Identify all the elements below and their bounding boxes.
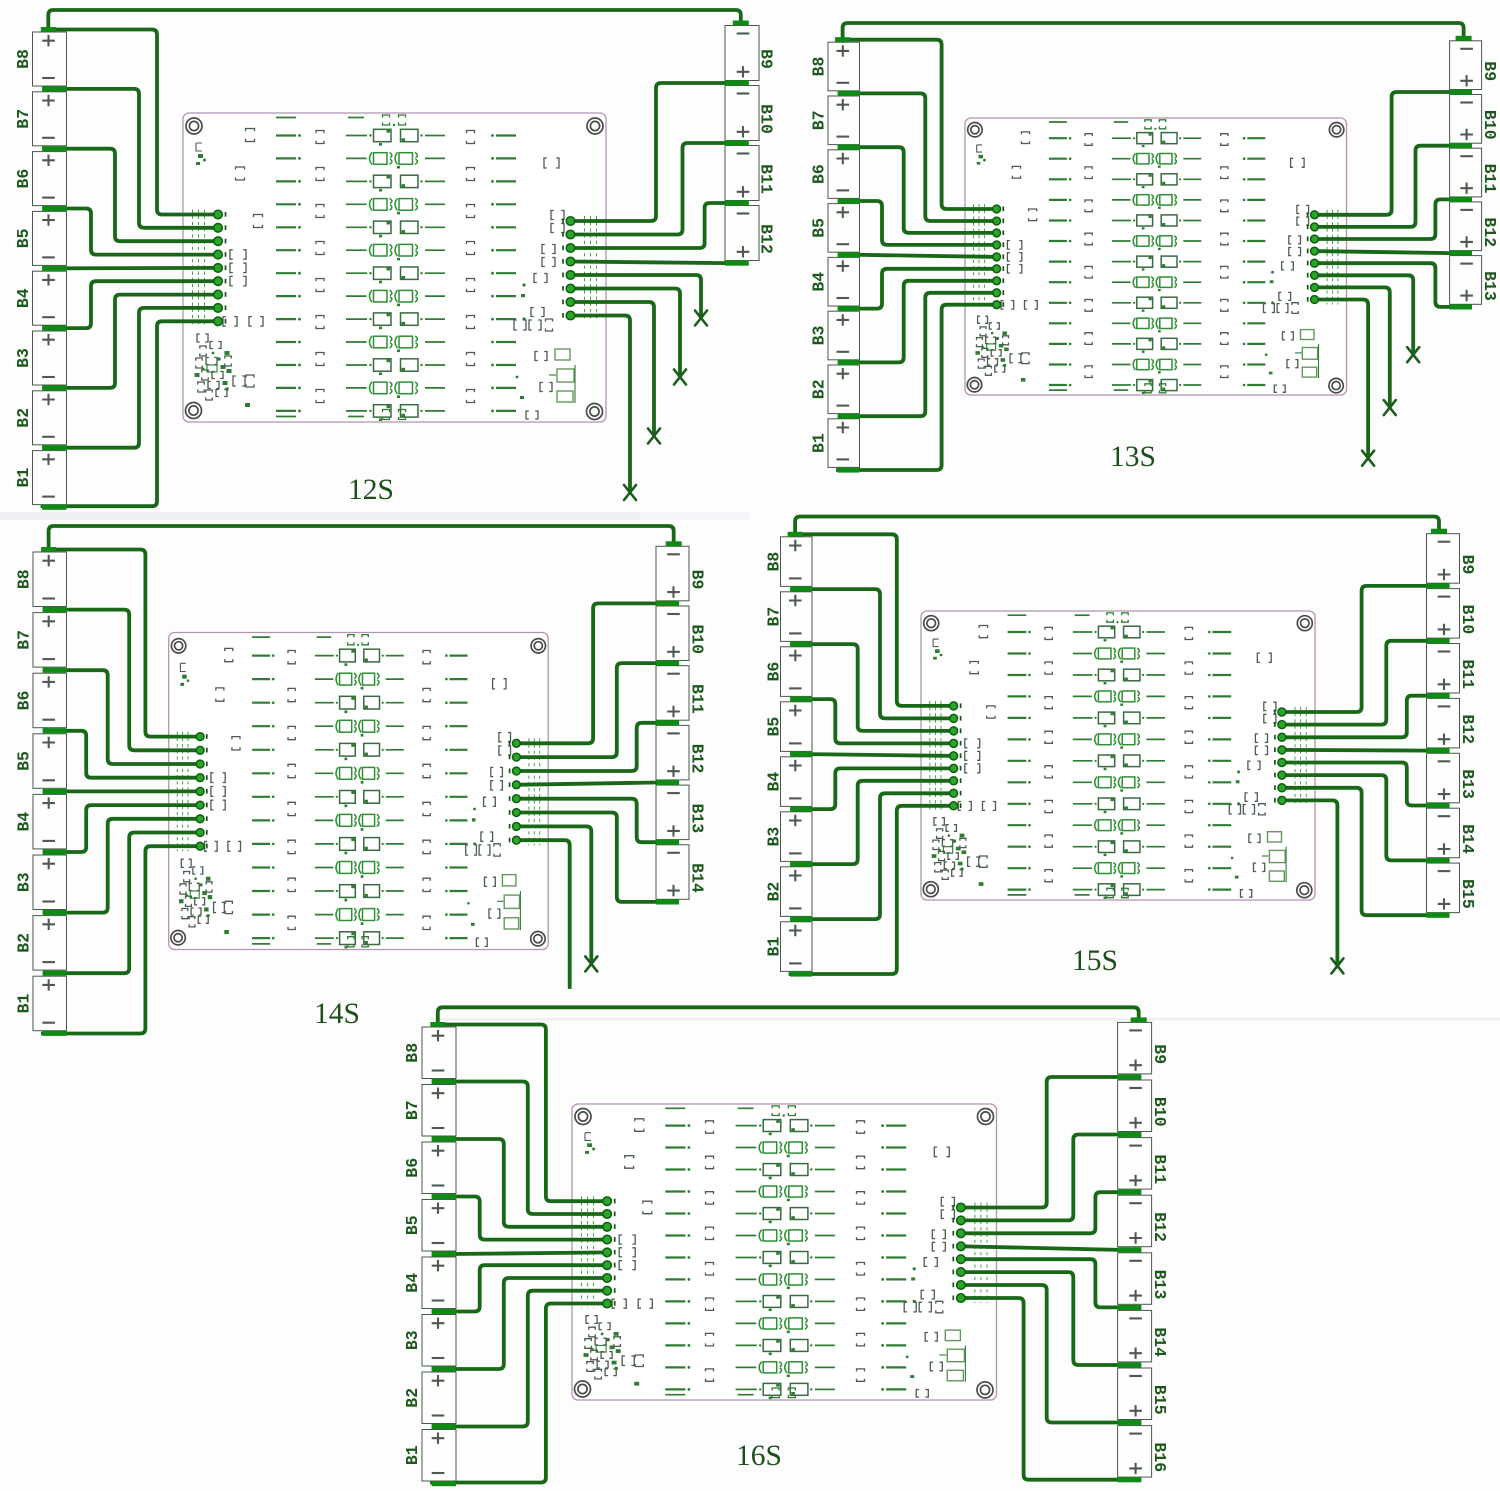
battery B9 (13S) [1450,41,1500,90]
X mark unused lead (12S) [695,311,707,326]
svg-text:B1: B1 [14,468,33,488]
link bar B6/B7 junction (14S) [43,668,67,673]
battery B6 (12S) [14,152,67,206]
battery B3 (14S) [15,855,67,910]
wire junction B11/B12 to pad R3 (16S) [961,1192,1118,1233]
wire junction B5/B6 to pad L4 (13S) [858,201,997,245]
wire unused pad R7 lead (13S) [1315,287,1390,407]
svg-text:B8: B8 [765,552,784,572]
wire junction B11/B12 to pad R3 (12S) [571,203,726,248]
svg-text:B16: B16 [1150,1442,1169,1472]
wire junction B7/B8 to pad L2 (15S) [810,589,954,718]
link bar B12/B13 junction (14S) [656,780,679,785]
link bar B9/B10 junction (15S) [1427,583,1450,588]
battery B12 (16S) [1118,1195,1170,1247]
link bar B7/B8 junction (16S) [432,1079,456,1084]
balance pads right column (14S) [510,739,521,844]
link bar B3/B4 junction (12S) [42,326,66,331]
wire junction B5/B6 to pad L4 (12S) [65,209,219,255]
battery B6 (14S) [15,673,67,728]
svg-text:B4: B4 [765,772,784,792]
battery B13 (13S) [1450,256,1500,305]
wire junction B1/B2 to pad L8 (13S) [858,293,997,416]
wire junction B5/B6 to pad L4 (15S) [810,699,954,743]
link bar B14+ terminal (14S) [656,899,679,904]
wire junction B7/B8 to pad L2 (14S) [65,610,201,751]
link bar B14/B15 junction (16S) [1118,1362,1142,1367]
balance pads left column (14S) [196,733,207,850]
link bar B6/B7 junction (16S) [432,1136,456,1141]
battery B1 (12S) [14,451,67,505]
wire junction B1/B2 to pad L8 (16S) [454,1291,607,1427]
link bar B15+ terminal (15S) [1427,913,1450,918]
battery B4 (14S) [15,794,67,849]
svg-text:B5: B5 [15,751,34,771]
balance pads left column (16S) [603,1197,615,1308]
battery B10 (16S) [1118,1080,1170,1132]
link bar B2/B3 junction (15S) [790,862,812,867]
svg-text:B10: B10 [1150,1097,1169,1127]
wire junction B1/B2 to pad L8 (12S) [65,308,219,448]
battery B5 (16S) [403,1200,456,1252]
wire B8+ to B9- series link (13S) [843,23,1464,40]
battery B6 (13S) [810,150,860,199]
PCB component footprints 15S [932,613,1286,899]
battery B14 (14S) [656,845,707,900]
svg-text:B6: B6 [403,1158,422,1178]
link bar B2/B3 junction (14S) [43,910,67,915]
link bar B16+ terminal (16S) [1118,1477,1142,1482]
pad guide dashed lines 13S [974,204,1338,310]
PCB board 14S [169,633,549,950]
link bar B6/B7 junction (15S) [790,642,812,647]
svg-text:12S: 12S [348,474,394,506]
wire junction B9/B10 to pad R1 (16S) [961,1077,1118,1208]
wire junction B10/B11 to pad R2 (13S) [1315,146,1450,227]
link bar B2/B3 junction (16S) [432,1366,456,1371]
wire junction B5/B6 to pad L4 (14S) [65,731,201,778]
svg-text:B10: B10 [757,104,776,134]
svg-text:B7: B7 [14,109,33,129]
wire unused pad R8 lead (13S) [1315,300,1369,459]
svg-text:15S: 15S [1072,945,1118,977]
battery B4 (12S) [14,271,67,325]
link bar B5/B6 junction (13S) [838,198,860,203]
link bar B5/B6 junction (16S) [432,1194,456,1199]
link bar B2/B3 junction (12S) [42,385,66,390]
wire junction B14/B15 to pad R6 (15S) [1282,775,1427,860]
battery B7 (15S) [765,592,813,642]
wire junction B5/B6 to pad L4 (16S) [454,1197,607,1240]
wire B1- to pad L9 (15S) [791,806,954,974]
link bar B2/B3 junction (13S) [838,360,860,365]
link bar B8+ terminal (15S) [788,532,803,537]
battery B11 (13S) [1450,148,1500,197]
battery B1 (13S) [810,419,860,468]
X mark unused lead (12S) [624,485,636,500]
link bar B1/B2 junction (13S) [838,414,860,419]
link bar B13/B14 junction (15S) [1427,803,1450,808]
wire junction B1/B2 to pad L8 (15S) [810,793,954,919]
battery B10 (15S) [1427,589,1478,639]
link bar B1- terminal (16S) [432,1481,456,1486]
wire unused pad R8 lead (12S) [571,316,631,493]
svg-text:B7: B7 [15,630,34,650]
battery B1 (14S) [15,976,67,1030]
svg-text:B13: B13 [1480,271,1499,301]
balance pads left column (12S) [214,210,226,325]
svg-text:B2: B2 [15,933,34,953]
svg-text:B8: B8 [403,1043,422,1063]
svg-text:B12: B12 [1458,714,1477,744]
battery B15 (16S) [1118,1368,1170,1420]
svg-text:B7: B7 [810,110,829,130]
wire B16+ pack positive to pad R8 (16S) [961,1298,1118,1480]
battery B4 (13S) [810,257,860,306]
link bar B10/B11 junction (16S) [1118,1132,1142,1137]
wire B1- to pad L9 (16S) [432,1304,607,1483]
battery B13 (14S) [656,785,707,840]
svg-text:B6: B6 [810,164,829,184]
battery B2 (12S) [14,391,67,445]
svg-text:B3: B3 [765,827,784,847]
link bar B3/B4 junction (16S) [432,1309,456,1314]
wire junction B2/B3 to pad L7 (13S) [858,281,997,363]
wire junction B3/B4 to pad L6 (15S) [810,768,954,809]
wire junction B9/B10 to pad R1 (14S) [516,603,656,743]
link bar B12+ terminal (12S) [725,261,749,266]
wire B13+ pack positive to pad R5 (13S) [1315,263,1450,307]
svg-text:B12: B12 [1150,1212,1169,1242]
svg-text:B8: B8 [15,569,34,589]
svg-text:B15: B15 [1458,879,1477,909]
wire unused pad R5 lead (12S) [571,275,702,318]
balance pads right column (13S) [1308,211,1319,303]
link bar B11/B12 junction (12S) [725,200,749,205]
wire unused pad R8 lead (14S) [516,840,569,987]
X mark unused lead (15S) [1331,958,1343,973]
balance pads right column (12S) [563,217,575,320]
svg-text:B11: B11 [688,684,707,714]
mounting holes 13S [967,123,1344,393]
svg-text:B12: B12 [757,224,776,254]
svg-text:B13: B13 [1458,769,1477,799]
mounting holes 16S [575,1109,994,1398]
svg-text:B9: B9 [1480,61,1499,81]
link bar B4/B5 junction (16S) [432,1251,456,1256]
battery B8 (13S) [810,42,860,91]
link bar B10/B11 junction (14S) [656,661,679,666]
battery B10 (14S) [656,606,707,661]
battery B14 (15S) [1427,808,1478,858]
link bar B7/B8 junction (13S) [838,91,860,96]
svg-text:B8: B8 [810,57,829,77]
wire unused pad R6 lead (12S) [571,289,681,378]
svg-text:B12: B12 [1480,217,1499,247]
pad guide dashed lines 14S [177,732,540,852]
PCB board 13S [965,118,1347,395]
battery B3 (15S) [765,812,813,862]
PCB component footprints 16S [584,1106,966,1399]
link bar B14/B15 junction (15S) [1427,858,1450,863]
battery B15 (15S) [1427,863,1478,913]
wire B8+ to pad L1 (14S) [49,550,201,737]
wire junction B7/B8 to pad L2 (12S) [65,89,219,228]
battery B4 (16S) [403,1257,456,1309]
wire junction B12/B13 to pad R4 (14S) [516,783,656,785]
mounting holes 12S [186,118,604,420]
link bar B12/B13 junction (15S) [1427,748,1450,753]
link bar B11/B12 junction (14S) [656,720,679,725]
svg-text:B9: B9 [757,49,776,69]
svg-text:B9: B9 [1150,1044,1169,1064]
wire unused pad R7 lead (12S) [571,302,655,436]
svg-text:B1: B1 [15,994,34,1014]
battery B11 (14S) [656,666,707,721]
battery B8 (12S) [14,32,67,86]
wire junction B9/B10 to pad R1 (12S) [571,83,726,221]
link bar B4/B5 junction (15S) [790,752,812,757]
wire B8+ to B9- series link (14S) [49,526,674,550]
link bar B10/B11 junction (13S) [1450,143,1472,148]
wire B8+ to pad L1 (12S) [48,30,218,215]
wire junction B7/B8 to pad L2 (13S) [858,93,997,221]
link bar B11/B12 junction (13S) [1450,197,1472,202]
wire junction B12/B13 to pad R4 (13S) [1315,251,1450,253]
svg-text:B6: B6 [15,691,34,711]
link bar B7/B8 junction (14S) [43,607,67,612]
wire junction B9/B10 to pad R1 (15S) [1282,586,1427,712]
link bar B1/B2 junction (12S) [42,445,66,450]
svg-text:B5: B5 [14,228,33,248]
battery B8 (16S) [403,1027,456,1079]
link bar B12/B13 junction (13S) [1450,251,1472,256]
battery B5 (13S) [810,204,860,253]
svg-text:B6: B6 [14,169,33,189]
battery B3 (16S) [403,1315,456,1367]
wire junction B10/B11 to pad R2 (14S) [516,663,656,757]
link bar B4/B5 junction (13S) [838,252,860,257]
battery B9 (14S) [656,546,707,601]
link bar B1- terminal (13S) [838,467,860,472]
mounting holes 14S [171,639,546,946]
wire junction B7/B8 to pad L2 (16S) [454,1082,607,1215]
svg-text:B3: B3 [403,1330,422,1350]
battery B8 (14S) [15,552,67,607]
battery B9 (16S) [1118,1022,1170,1074]
svg-text:14S: 14S [314,998,360,1030]
battery B5 (12S) [14,211,67,265]
link bar B15/B16 junction (16S) [1118,1420,1142,1425]
wire unused pad R6 lead (13S) [1315,275,1414,354]
wire junction B3/B4 to pad L6 (14S) [65,805,201,852]
battery B1 (15S) [765,922,813,972]
X mark unused lead (14S) [585,956,597,971]
wire B8+ to pad L1 (15S) [795,534,954,706]
link bar B1/B2 junction (15S) [790,917,812,922]
svg-text:B7: B7 [403,1100,422,1120]
PCB board 15S [921,611,1315,900]
PCB component footprints 12S [195,115,576,421]
link bar B1- terminal (15S) [790,971,812,976]
svg-text:B13: B13 [1150,1270,1169,1300]
link bar B12/B13 junction (16S) [1118,1247,1142,1252]
svg-text:B3: B3 [15,872,34,892]
battery B7 (12S) [14,92,67,146]
link bar B8+ terminal (16S) [430,1022,445,1027]
link bar B7/B8 junction (15S) [790,587,812,592]
svg-text:16S: 16S [736,1440,782,1472]
battery B12 (15S) [1427,698,1478,748]
wire junction B6/B7 to pad L3 (14S) [65,670,201,764]
svg-text:B2: B2 [765,882,784,902]
wire B1- to pad L9 (14S) [43,846,200,1033]
wire junction B2/B3 to pad L7 (14S) [65,819,201,913]
battery B9 (12S) [725,26,776,81]
link bar B9- terminal (13S) [1456,36,1472,41]
svg-text:B2: B2 [403,1388,422,1408]
link bar B9/B10 junction (13S) [1450,89,1472,94]
svg-text:B5: B5 [765,717,784,737]
wire junction B13/B14 to pad R5 (16S) [961,1259,1118,1307]
wire junction B4/B5 to pad L5 (12S) [65,266,219,270]
pad guide dashed lines 16S [582,1196,988,1308]
link bar B10/B11 junction (12S) [725,140,749,145]
link bar B11/B12 junction (15S) [1427,693,1450,698]
wire unused pad R8 lead (15S) [1282,800,1338,966]
balance pads right column (16S) [953,1203,965,1302]
link bar B9/B10 junction (14S) [656,601,679,606]
wire B8+ to B9- series link (12S) [48,10,741,30]
battery B2 (15S) [765,867,813,917]
X mark unused lead (13S) [1407,347,1419,362]
link bar B13/B14 junction (16S) [1118,1305,1142,1310]
balance pads right column (15S) [1275,708,1286,804]
battery B12 (14S) [656,725,707,780]
PCB component footprints 14S [179,635,520,949]
wire junction B9/B10 to pad R1 (13S) [1315,92,1450,215]
link bar B11/B12 junction (16S) [1118,1190,1142,1195]
link bar B6/B7 junction (13S) [838,145,860,150]
wire junction B6/B7 to pad L3 (13S) [858,147,997,233]
battery B13 (15S) [1427,753,1478,803]
wire B8+ to B9- series link (16S) [438,1007,1139,1025]
svg-text:B15: B15 [1150,1385,1169,1415]
wire junction B6/B7 to pad L3 (15S) [810,644,954,731]
svg-text:B11: B11 [1480,164,1499,194]
svg-text:B1: B1 [765,937,784,957]
wire junction B3/B4 to pad L6 (16S) [454,1265,607,1311]
battery B7 (16S) [403,1085,456,1137]
wire junction B3/B4 to pad L6 (12S) [65,281,219,328]
svg-text:B10: B10 [1458,605,1477,635]
svg-text:B4: B4 [14,288,33,308]
battery B13 (16S) [1118,1253,1170,1305]
PCB board 12S [183,113,606,422]
battery B3 (12S) [14,331,67,385]
svg-text:B5: B5 [810,218,829,238]
link bar B9- terminal (16S) [1131,1017,1147,1022]
wire B1- to pad L9 (13S) [838,305,997,470]
battery B6 (16S) [403,1142,456,1194]
svg-text:B12: B12 [688,744,707,774]
svg-text:B1: B1 [810,433,829,453]
battery B5 (14S) [15,734,67,789]
battery B2 (16S) [403,1372,456,1424]
battery B5 (15S) [765,702,813,752]
wire B1- to pad L9 (12S) [43,321,219,506]
wire junction B10/B11 to pad R2 (16S) [961,1135,1118,1221]
wire junction B4/B5 to pad L5 (15S) [810,754,954,756]
link bar B5/B6 junction (14S) [43,728,67,733]
link bar B4/B5 junction (12S) [42,266,66,271]
svg-text:B14: B14 [1458,824,1477,854]
svg-text:B11: B11 [1458,659,1477,689]
battery B7 (13S) [810,96,860,145]
battery B11 (15S) [1427,644,1478,694]
svg-text:B1: B1 [403,1445,422,1465]
svg-text:B7: B7 [765,607,784,627]
wire junction B13/B14 to pad R5 (15S) [1282,763,1427,806]
link bar B9/B10 junction (16S) [1118,1074,1142,1079]
wire junction B2/B3 to pad L7 (12S) [65,295,219,388]
battery B16 (16S) [1118,1426,1170,1478]
wire junction B13/B14 to pad R5 (14S) [516,799,656,843]
wire B8+ to pad L1 (13S) [843,40,997,209]
battery B7 (14S) [15,613,67,668]
X mark unused lead (13S) [1362,451,1374,466]
wire B12+ pack positive to pad R4 (12S) [571,262,726,264]
svg-text:B4: B4 [810,272,829,292]
link bar B13+ terminal (13S) [1450,304,1472,309]
svg-text:B2: B2 [14,408,33,428]
wire junction B6/B7 to pad L3 (12S) [65,149,219,242]
battery B2 (13S) [810,365,860,414]
svg-text:B9: B9 [1458,555,1477,575]
svg-text:13S: 13S [1110,441,1156,473]
svg-text:B11: B11 [757,164,776,194]
link bar B10/B11 junction (15S) [1427,638,1450,643]
link bar B7/B8 junction (12S) [42,86,66,91]
pad guide dashed lines 15S [930,701,1306,811]
battery B2 (14S) [15,916,67,971]
link bar B5/B6 junction (15S) [790,697,812,702]
svg-text:B5: B5 [403,1215,422,1235]
link bar B6/B7 junction (12S) [42,146,66,151]
svg-text:B6: B6 [765,662,784,682]
X mark unused lead (13S) [1384,400,1396,415]
wire unused pad R7 lead (14S) [516,826,591,964]
link bar B8+ terminal (13S) [835,37,850,42]
wire B8+ to pad L1 (16S) [438,1025,607,1202]
battery B14 (16S) [1118,1310,1170,1362]
svg-text:B11: B11 [1150,1154,1169,1184]
wire B15+ pack positive to pad R7 (15S) [1282,788,1427,915]
svg-text:B13: B13 [688,803,707,833]
PCB board 16S [572,1104,997,1400]
svg-text:B4: B4 [403,1273,422,1293]
battery B11 (16S) [1118,1138,1170,1190]
wire junction B6/B7 to pad L3 (16S) [454,1139,607,1227]
balance pads left column (15S) [950,702,961,810]
link bar B4/B5 junction (14S) [43,789,67,794]
svg-text:B10: B10 [688,624,707,654]
svg-text:B14: B14 [688,863,707,893]
wire junction B10/B11 to pad R2 (12S) [571,143,726,235]
svg-text:B4: B4 [15,812,34,832]
svg-text:B2: B2 [810,379,829,399]
scan seam band [0,512,640,520]
